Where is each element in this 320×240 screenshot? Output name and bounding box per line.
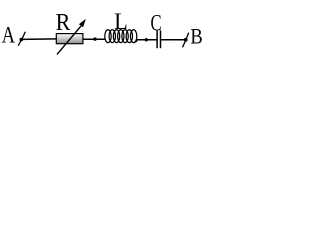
svg-text:R: R	[56, 9, 71, 36]
junction dot at B	[184, 38, 188, 42]
terminal slash at B	[183, 33, 189, 48]
wire C to B	[161, 39, 186, 41]
capacitor C1	[157, 30, 160, 48]
wire A to R	[21, 38, 57, 41]
junction dot at A	[20, 38, 24, 42]
wire R to junction	[83, 38, 105, 40]
junction dot after R	[93, 37, 96, 40]
svg-text:A: A	[2, 22, 16, 49]
resistor R1 (rheostat)	[56, 19, 86, 55]
junction dot after L	[145, 38, 148, 41]
terminal slash at A	[18, 32, 25, 46]
svg-text:B: B	[190, 25, 202, 49]
svg-text:C: C	[151, 11, 162, 36]
inductor L1	[105, 30, 138, 43]
wire L to C	[137, 39, 158, 41]
svg-text:L: L	[114, 9, 128, 34]
